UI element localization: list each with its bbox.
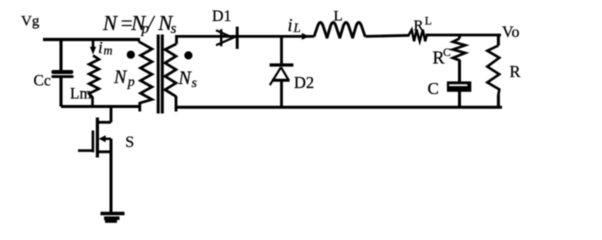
svg-text:S: S xyxy=(125,134,134,151)
svg-text:Vo: Vo xyxy=(502,24,520,41)
svg-text:Vg: Vg xyxy=(21,14,40,30)
svg-text:C: C xyxy=(443,47,451,59)
svg-text:D1: D1 xyxy=(212,8,232,25)
svg-text:Cc: Cc xyxy=(34,73,51,90)
svg-text:N=Np/Ns: N=Np/Ns xyxy=(102,11,177,37)
svg-text:Ns: Ns xyxy=(178,69,198,91)
svg-text:L: L xyxy=(334,9,343,25)
svg-text:D2: D2 xyxy=(294,73,314,92)
svg-text:iL: iL xyxy=(288,15,301,35)
svg-text:L: L xyxy=(425,16,432,28)
svg-text:R: R xyxy=(510,62,521,81)
svg-text:C: C xyxy=(428,79,439,98)
svg-text:Np: Np xyxy=(113,68,135,90)
svg-text:R: R xyxy=(414,18,424,34)
svg-text:Lm: Lm xyxy=(70,86,92,103)
